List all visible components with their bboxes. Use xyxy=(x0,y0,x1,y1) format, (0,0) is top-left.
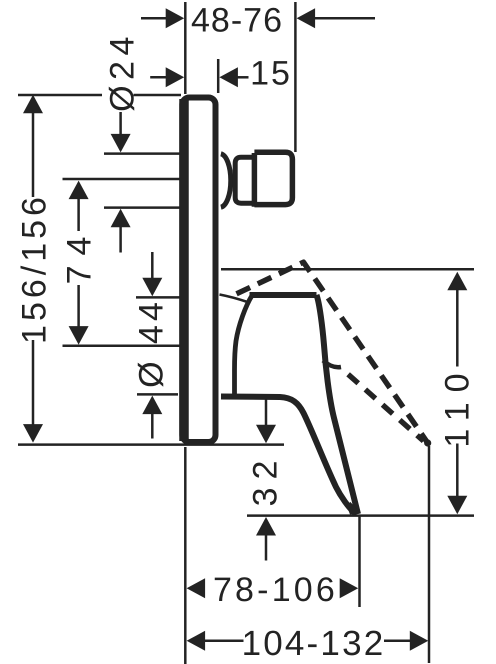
lever tip thickening xyxy=(347,502,361,515)
knob bulge at plate front xyxy=(221,154,231,207)
svg-text:48-76: 48-76 xyxy=(191,1,283,39)
wire: extension line y=444.6 (plate bottom long) xyxy=(18,443,284,446)
svg-text:78-106: 78-106 xyxy=(213,571,338,609)
svg-text:32: 32 xyxy=(247,453,285,507)
dimension Ø24 down arrow xyxy=(119,112,122,137)
svg-text:Ø 44: Ø 44 xyxy=(133,298,171,388)
dimension 74 xyxy=(69,181,89,200)
dashed raised lever upper edge xyxy=(237,262,428,443)
knob small cylinder xyxy=(235,157,254,203)
wire: extension line top plate y=95 right segment xyxy=(134,94,182,97)
dimension 156/156 xyxy=(23,95,43,114)
svg-text:74: 74 xyxy=(61,227,99,285)
wire: extension line y=269 (raised lever top) xyxy=(221,268,474,271)
wire: extension line y=345.8 (74 bottom) xyxy=(63,345,181,348)
wire: extension line y=394.4 (body bottom) xyxy=(137,393,178,396)
svg-text:110: 110 xyxy=(439,363,477,447)
wire: vertical tick x=218.2 (plate front) xyxy=(217,59,220,93)
body bottom line and lever front edge xyxy=(221,397,356,514)
dimension 110 xyxy=(447,272,467,291)
knob divider line xyxy=(252,153,258,207)
dimension 15 xyxy=(150,76,170,79)
dimension 48-76 top xyxy=(141,17,170,20)
handle body right edge and lever back edge xyxy=(317,295,359,514)
body neck thin top line xyxy=(220,295,248,303)
dashed raised lever lower edge xyxy=(341,368,424,441)
escutcheon plate (side view) xyxy=(182,98,215,443)
wire: extension line y=515.6 (lever tip) xyxy=(247,514,474,517)
svg-text:15: 15 xyxy=(250,54,292,92)
handle body top edge xyxy=(250,292,317,298)
wire: extension line knob bottom y=207.6 xyxy=(104,206,182,209)
handle body left edge xyxy=(235,296,253,395)
svg-text:156/156: 156/156 xyxy=(16,193,54,344)
wire: extension line top plate y=95 left segment xyxy=(18,94,102,97)
wire: extension line y=297.4 (body top) xyxy=(136,296,181,299)
dimension Ø44 xyxy=(151,252,154,281)
dimension Ø24 up arrow xyxy=(119,224,122,253)
wire: vertical extension x=185.3 bottom xyxy=(184,447,187,664)
dashed lever tip dot xyxy=(424,439,431,446)
wire: vertical extension x=429 (raised lever tip) xyxy=(428,446,431,663)
joint line on lever xyxy=(323,361,341,368)
svg-text:104-132: 104-132 xyxy=(242,624,386,663)
wire: extension line knob top y=153.6 xyxy=(104,152,182,155)
dimension 104-132 xyxy=(187,631,206,651)
plate rear thick edge xyxy=(179,99,189,441)
wire: vertical extension x=295.4 (knob tip) xyxy=(294,2,297,152)
knob big cylinder xyxy=(254,152,292,204)
wire: vertical extension x=185.3 top xyxy=(184,2,187,94)
dimension 78-106 xyxy=(187,578,206,598)
svg-text:Ø24: Ø24 xyxy=(104,31,142,112)
dimension 32 xyxy=(265,398,268,428)
wire: vertical extension x=359.5 (solid lever tip) xyxy=(358,516,361,607)
wire: extension line y=179 (74 top) xyxy=(63,178,183,181)
